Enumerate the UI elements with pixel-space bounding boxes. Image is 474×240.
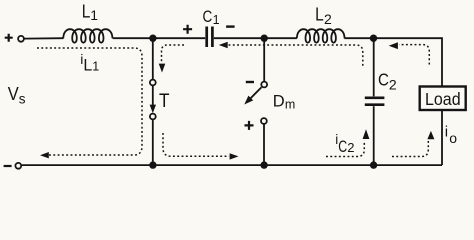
diode Dm branch: wire from node B to top contact <box>263 38 265 81</box>
label plus C1 <box>183 25 192 34</box>
wire L2 to top-right corner <box>344 38 442 86</box>
arrowhead down into T <box>159 64 166 73</box>
svg-text:1: 1 <box>92 59 99 73</box>
svg-text:L: L <box>82 1 91 21</box>
arrowhead up i_C2 <box>363 129 370 139</box>
switch T bottom contact circle <box>150 114 156 120</box>
wire Dm to bottom wire <box>263 124 265 165</box>
arrowhead up i_o <box>427 131 434 139</box>
wire C1 to L2 <box>214 37 297 39</box>
wire C2 to bottom wire <box>373 106 375 165</box>
capacitor C2 plates <box>365 98 385 105</box>
svg-text:L: L <box>83 56 92 74</box>
diode Dm top contact circle <box>261 82 267 88</box>
svg-text:D: D <box>273 93 285 111</box>
dashed current path into C1 from right (i_L2 loop) <box>229 45 363 67</box>
wire load to bottom wire <box>441 111 443 166</box>
terminal plus (source positive) <box>5 34 13 42</box>
svg-text:s: s <box>19 92 26 107</box>
svg-text:o: o <box>449 130 457 146</box>
dashed current path i_o bottom <box>392 141 428 157</box>
junction node B (C1/Dm/L2) <box>261 35 268 42</box>
svg-text:C: C <box>338 138 347 156</box>
junction node A (L1/T/C1) <box>149 35 156 42</box>
diode Dm blade with arrowhead <box>250 87 261 98</box>
inductor L1 <box>63 29 112 43</box>
dashed current path i_o top (around load) <box>399 45 429 65</box>
junction node C (L2/C2) <box>370 35 377 42</box>
svg-text:1: 1 <box>90 7 98 23</box>
capacitor C2 branch: wire from node C <box>373 38 375 96</box>
junction T bottom <box>149 161 156 168</box>
label plus Dm <box>245 121 254 130</box>
bottom wire <box>22 164 442 166</box>
dashed current path from C1 into switch T (upper) <box>162 45 185 63</box>
svg-text:C: C <box>203 7 213 26</box>
dashed current path i_C2 <box>326 141 364 157</box>
arrowhead left i_o top <box>389 42 398 49</box>
diode Dm bottom contact circle <box>261 118 267 124</box>
wire L1 to C1 <box>113 37 206 39</box>
capacitor C1 <box>207 27 213 48</box>
switch T branch: wire from node A to top contact <box>152 38 154 79</box>
svg-text:i: i <box>445 123 448 140</box>
svg-text:V: V <box>8 84 19 104</box>
dashed current path from T to Dm (lower) <box>163 133 229 156</box>
switch T conducting segment with arrow <box>152 86 154 105</box>
svg-text:m: m <box>285 97 295 111</box>
source negative terminal circle <box>15 163 21 169</box>
switch T top contact circle <box>150 80 156 86</box>
svg-text:2: 2 <box>347 140 354 155</box>
label minus Dm <box>246 81 254 83</box>
source positive terminal circle <box>18 36 24 42</box>
dashed current path i_L1 (left loop) <box>37 48 142 155</box>
svg-text:L: L <box>315 4 324 24</box>
svg-text:1: 1 <box>213 13 220 27</box>
dashed paths <box>37 45 429 157</box>
arrowhead left into C1 <box>219 42 228 48</box>
arrowhead i_L1 pointing left <box>40 152 49 158</box>
wire top-left <box>24 37 63 39</box>
arrowhead right toward Dm <box>230 153 239 159</box>
terminal minus (source negative) <box>4 165 12 167</box>
svg-text:Load: Load <box>425 89 461 109</box>
load box <box>420 87 466 111</box>
junction Dm bottom <box>260 161 267 168</box>
svg-text:2: 2 <box>389 76 397 92</box>
svg-text:T: T <box>159 91 170 112</box>
junction C2 bottom <box>370 161 377 168</box>
wire T to bottom wire <box>152 120 154 165</box>
svg-text:2: 2 <box>324 11 332 27</box>
inductor L2 <box>297 29 345 43</box>
label minus C1 <box>226 25 235 27</box>
svg-text:C: C <box>378 69 389 89</box>
